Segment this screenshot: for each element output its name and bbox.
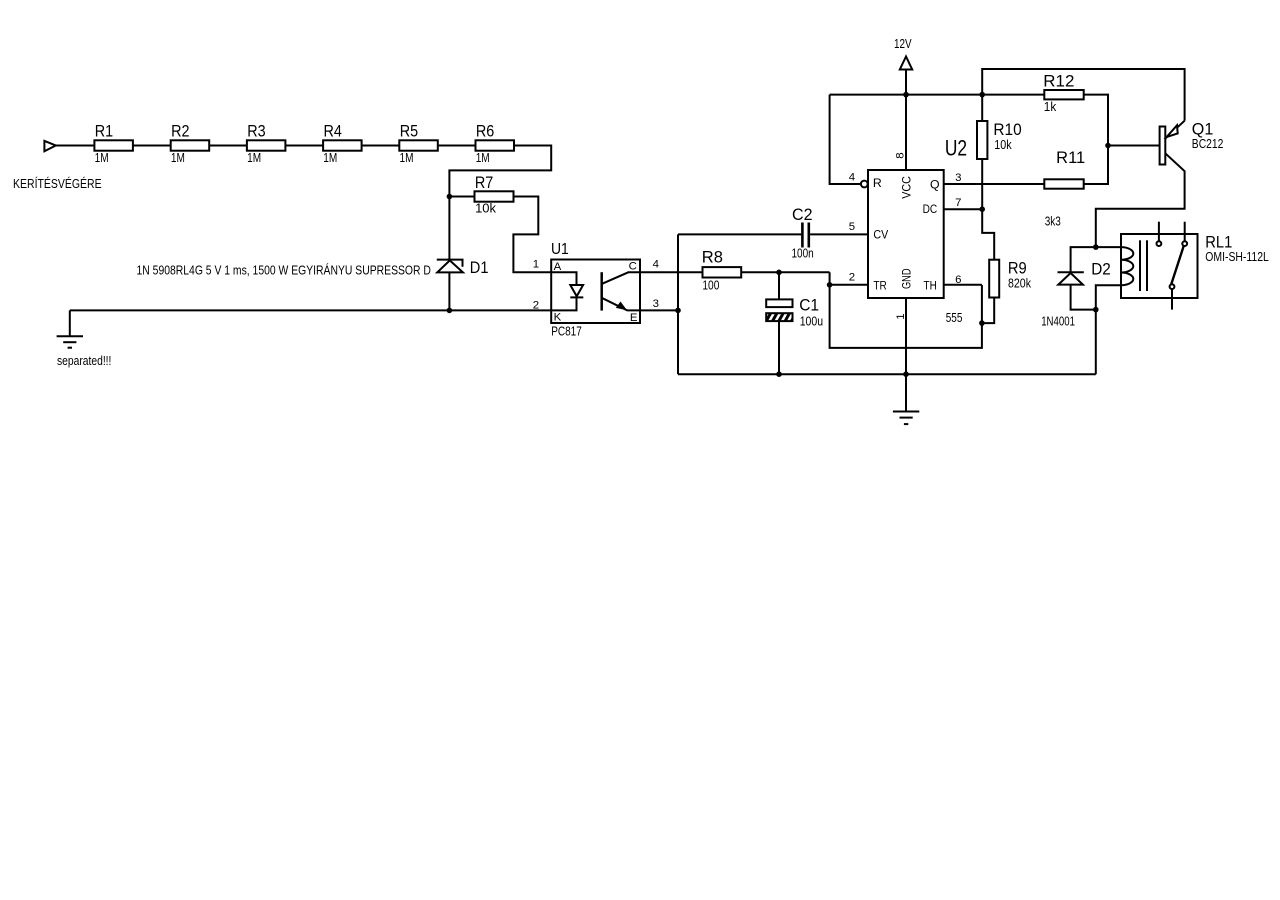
input terminal arrow KERÍTÉSVÉGÉRE [44, 141, 55, 151]
transistor Q1 base bar [1160, 127, 1166, 165]
node junction DC [979, 206, 985, 212]
svg-text:12V: 12V [894, 37, 912, 51]
svg-text:C1: C1 [799, 296, 819, 314]
svg-text:R4: R4 [324, 123, 342, 141]
Q1 collector diagonal and wire to relay node [1096, 153, 1185, 247]
relay contact stub top-right [1184, 222, 1186, 242]
vertical net x678 [677, 234, 679, 374]
U1 emitter arrowhead [616, 302, 627, 311]
wire down to separated ground [69, 310, 71, 335]
svg-text:7: 7 [955, 197, 961, 209]
relay contact circle bottom [1170, 284, 1175, 289]
svg-text:10k: 10k [994, 138, 1012, 152]
wire base to Q1 [1108, 145, 1160, 147]
svg-text:1M: 1M [95, 151, 109, 165]
svg-text:R9: R9 [1008, 260, 1027, 278]
D1 anode wire down to row [448, 272, 450, 310]
svg-text:E: E [630, 312, 638, 324]
wire DC node to R9 top jog [982, 209, 994, 260]
resistor R3 [247, 140, 286, 150]
ground symbol (3 bars) [893, 411, 919, 413]
svg-text:R12: R12 [1043, 72, 1074, 90]
svg-text:1k: 1k [1044, 100, 1057, 114]
node junction TR [827, 282, 833, 288]
node junction GND rail [903, 371, 909, 377]
wire CV row left of C2 [678, 233, 801, 235]
wire GND pin down [905, 298, 907, 374]
wire input to R1 [56, 145, 95, 147]
svg-text:8: 8 [895, 152, 907, 158]
svg-text:1M: 1M [476, 151, 490, 165]
svg-text:VCC: VCC [900, 176, 914, 199]
relay contact circle top-left [1157, 241, 1162, 246]
wire U1 pin3 to vertical [640, 309, 678, 311]
svg-text:DC: DC [923, 202, 938, 216]
diode D2 cathode bar [1058, 271, 1084, 273]
Q1 emitter diagonal [1165, 121, 1184, 139]
svg-text:6: 6 [955, 274, 961, 286]
node junction C1 bottom rail [776, 371, 782, 377]
svg-text:R: R [873, 176, 882, 190]
wire Q pin row [944, 183, 1045, 185]
D2 triangle [1058, 273, 1083, 285]
svg-text:1M: 1M [247, 151, 261, 165]
wire TR node down and right to TH node [830, 285, 982, 348]
node junction R9 bottom [979, 320, 985, 326]
svg-text:GND: GND [900, 268, 914, 289]
svg-text:3: 3 [653, 298, 659, 310]
wire top rail to Q1 emitter [982, 69, 1184, 121]
svg-text:100u: 100u [800, 315, 823, 329]
wire rail to ground symbol [905, 374, 907, 411]
wire coil bottom return [1096, 285, 1121, 309]
wire R1-R2 [133, 145, 171, 147]
svg-text:R10: R10 [993, 121, 1021, 139]
timer 555 U2 box [868, 170, 944, 298]
wire R10 bottom to DC node [981, 159, 983, 209]
svg-text:KERÍTÉSVÉGÉRE: KERÍTÉSVÉGÉRE [13, 176, 102, 191]
svg-text:555: 555 [946, 311, 963, 325]
svg-text:RL1: RL1 [1205, 233, 1232, 251]
U1 collector diagonal [602, 272, 640, 284]
resistor R4 [323, 140, 362, 150]
U1 phototransistor bar [600, 272, 603, 310]
node junction top rail corner [979, 92, 985, 98]
wire R5-R6 [438, 145, 476, 147]
svg-text:C: C [629, 261, 637, 273]
svg-text:4: 4 [653, 259, 659, 271]
svg-text:100: 100 [702, 278, 719, 292]
resistor R9 vertical [989, 260, 999, 298]
ground separated (3 bars) [57, 335, 83, 337]
D1 triangle [437, 260, 463, 272]
svg-text:separated!!!: separated!!! [57, 354, 111, 368]
resistor R7 [475, 191, 514, 201]
svg-text:K: K [554, 312, 562, 324]
diode D1 suppressor: wire from node down [448, 197, 450, 260]
wire down to C1 [778, 272, 780, 299]
svg-text:D2: D2 [1091, 260, 1111, 278]
U1 emitter diagonal [602, 298, 640, 311]
wire VCC row [830, 94, 1045, 96]
U1 internal LED wires [551, 272, 576, 285]
wire R12 right to base column [1084, 95, 1108, 184]
wire R2-R3 [209, 145, 247, 147]
svg-text:R2: R2 [171, 123, 189, 141]
D1 cathode bar with right wing [437, 260, 463, 267]
svg-text:3k3: 3k3 [1045, 215, 1061, 229]
wire TH pin to vertical [944, 284, 982, 286]
svg-text:R1: R1 [95, 123, 113, 141]
svg-text:10k: 10k [475, 202, 497, 216]
wire node to D2 cathode [1071, 247, 1096, 272]
resistor R10 vertical [981, 95, 983, 121]
wire R4-R5 [362, 145, 400, 147]
svg-text:R5: R5 [400, 123, 418, 141]
svg-text:1N 5908RL4G 5 V 1 ms, 1500 W E: 1N 5908RL4G 5 V 1 ms, 1500 W EGYIRÁNYU S… [137, 262, 431, 277]
wire R8 to TR corner [741, 271, 829, 273]
svg-text:R6: R6 [476, 123, 494, 141]
node junction pin3 vertical [675, 308, 681, 314]
wire C1 bottom to rail [778, 320, 780, 374]
U1 LED to pin2 [551, 297, 576, 310]
svg-text:TH: TH [924, 279, 937, 293]
svg-text:1: 1 [533, 259, 539, 271]
wire C2 to 555 CV pin [810, 233, 868, 235]
wire R3-R4 [285, 145, 323, 147]
node junction relay coil top [1093, 244, 1099, 250]
wire R9 bottom jog to TH node [982, 298, 994, 324]
svg-text:BC212: BC212 [1192, 137, 1224, 151]
relay core lines [1139, 240, 1141, 291]
12V power arrow [900, 57, 912, 70]
wire R6 to descent corner [449, 146, 551, 197]
relay contact circle top-right [1182, 241, 1187, 246]
relay contact stub bottom [1171, 289, 1173, 310]
svg-text:C2: C2 [792, 206, 813, 224]
svg-text:R8: R8 [702, 248, 723, 266]
wire D2 anode to bottom node [1071, 285, 1096, 310]
svg-text:CV: CV [873, 227, 888, 241]
svg-text:1M: 1M [323, 151, 337, 165]
Q1 emitter open arrowhead [1167, 125, 1178, 137]
svg-text:100n: 100n [792, 247, 814, 261]
svg-text:1N4001: 1N4001 [1041, 315, 1075, 329]
svg-text:Q: Q [930, 177, 940, 191]
optocoupler U1 box [551, 260, 640, 324]
resistor R5 [399, 140, 438, 150]
svg-text:820k: 820k [1008, 277, 1032, 291]
relay coil arcs [1121, 247, 1133, 285]
node junction D1 anode on row [447, 308, 453, 314]
capacitor C2 plates [801, 223, 804, 248]
resistor R6 [476, 140, 515, 150]
wire VCC vertical [905, 70, 907, 171]
svg-text:3: 3 [955, 172, 961, 184]
wire reset loop down [830, 95, 861, 184]
wire DC pin [944, 208, 983, 210]
wire long bottom row to U1 pin2 [70, 309, 551, 311]
wire R7 to U1 pin1 (jog) [513, 197, 551, 273]
resistor R8 [703, 267, 742, 277]
U1 LED cathode bar [570, 296, 583, 298]
svg-text:R11: R11 [1056, 149, 1085, 167]
wire node down to rail [1095, 310, 1097, 375]
resistor R2 [171, 140, 210, 150]
relay switch lever [1171, 246, 1183, 284]
wire R8 node to TR pin jog [830, 272, 868, 285]
svg-text:U1: U1 [551, 241, 569, 258]
svg-text:4: 4 [849, 172, 855, 184]
svg-text:Q1: Q1 [1192, 121, 1214, 139]
svg-text:R3: R3 [247, 123, 265, 141]
svg-text:D1: D1 [470, 259, 489, 277]
node junction R7/D1 [447, 194, 453, 200]
node junction base [1105, 143, 1111, 149]
wire node to R7 [449, 196, 474, 198]
resistor R12 [1044, 90, 1083, 99]
node junction C1 top [776, 270, 782, 276]
wire coil top into relay [1096, 246, 1121, 248]
svg-text:OMI-SH-112L: OMI-SH-112L [1205, 250, 1269, 264]
svg-text:U2: U2 [945, 136, 967, 161]
svg-text:1M: 1M [171, 151, 185, 165]
U1 LED triangle [570, 285, 583, 296]
resistor R11 [1044, 179, 1083, 188]
svg-text:TR: TR [873, 279, 886, 293]
relay RL1 box [1121, 234, 1198, 298]
resistor R1 [94, 140, 132, 150]
relay contact stub top-left [1158, 222, 1160, 242]
node junction coil bottom [1093, 307, 1099, 313]
svg-text:2: 2 [533, 300, 539, 312]
svg-text:2: 2 [849, 271, 855, 283]
wire U1 pin4 to R8 [640, 271, 703, 273]
node junction VCC row [903, 92, 909, 98]
bottom ground rail [678, 373, 1096, 375]
svg-text:R7: R7 [475, 174, 493, 192]
svg-text:5: 5 [849, 221, 855, 233]
svg-text:1M: 1M [400, 151, 414, 165]
svg-text:PC817: PC817 [551, 323, 582, 338]
capacitor C1 top plate [766, 299, 792, 307]
reset pin bubble [861, 181, 868, 188]
